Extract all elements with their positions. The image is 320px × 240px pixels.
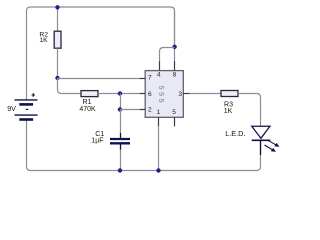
battery minus symbol: [26, 108, 28, 110]
svg-text:1K: 1K: [224, 108, 233, 115]
svg-text:R1: R1: [83, 99, 92, 106]
wire left bus to battery top: [26, 10, 28, 100]
LED light arrow 2: [265, 145, 276, 152]
svg-text:4: 4: [157, 71, 161, 78]
capacitor C1: [110, 133, 130, 150]
svg-text:470K: 470K: [79, 106, 96, 113]
LED light arrow 1: [267, 140, 279, 147]
battery plus symbol: [32, 93, 36, 97]
wire top bus from left corner to pin8 corner: [27, 7, 175, 44]
node junction pin1 / ground bus: [156, 168, 160, 172]
label 555 rotated: [157, 86, 166, 106]
wire pin 7 row: [58, 78, 140, 80]
battery B1 9V: [15, 100, 38, 120]
resistor R2: [54, 31, 61, 48]
label R2 1K: [39, 31, 48, 44]
label L.E.D.: [225, 129, 245, 138]
pin 3 stub: [183, 93, 190, 95]
svg-text:9V: 9V: [7, 104, 16, 113]
pin label 4: [157, 71, 161, 78]
wire R2 bottom lead: [57, 48, 59, 78]
wire R2 top lead: [57, 7, 59, 31]
pin 7 stub: [140, 78, 146, 80]
svg-text:8: 8: [173, 71, 177, 78]
svg-text:6: 6: [148, 91, 152, 98]
svg-text:2: 2: [148, 107, 152, 114]
wire R2 node down to R1: [58, 78, 82, 94]
wire C1 bottom lead: [120, 150, 122, 171]
pin 4 stub: [159, 61, 161, 70]
pin 8 stub: [174, 61, 176, 70]
node junction pin4 / pin8: [172, 45, 176, 49]
pin 5 stub: [174, 117, 176, 126]
node junction R2 / pin7 / R1: [55, 76, 59, 80]
svg-text:1K: 1K: [39, 37, 48, 44]
wire pin 2 row: [120, 109, 140, 111]
wire node to node vertical: [120, 94, 122, 110]
pin 6 stub: [140, 93, 146, 95]
pin label 7: [148, 75, 152, 82]
svg-text:555: 555: [157, 86, 166, 106]
svg-text:1: 1: [157, 109, 161, 116]
wire pin 3 to R3: [190, 93, 222, 95]
node junction R1 / pin6 / C1: [118, 91, 122, 95]
node junction C1 / ground bus: [118, 168, 122, 172]
wire pin8 vertical from top bus: [174, 11, 176, 62]
node junction top bus / R2: [55, 5, 59, 9]
wire bottom ground bus: [120, 142, 261, 171]
wire branch to pin 4: [160, 48, 175, 62]
wire C1 top lead: [120, 110, 122, 134]
label R1 470K: [79, 99, 96, 113]
wire battery bottom to bottom-left corner: [27, 121, 121, 171]
battery label 9V: [7, 104, 16, 113]
node junction pin2 / C1: [118, 107, 122, 111]
label R3 1K: [224, 102, 233, 116]
svg-text:1µF: 1µF: [91, 137, 103, 144]
svg-text:7: 7: [148, 75, 152, 82]
wire R3 to LED corner: [238, 94, 261, 127]
pin 2 stub: [140, 109, 146, 111]
svg-text:L.E.D.: L.E.D.: [225, 129, 245, 138]
pin label 1: [157, 109, 161, 116]
resistor R3: [221, 91, 238, 97]
pin label 8: [173, 71, 177, 78]
op-amp U1 555 timer body: [145, 71, 183, 118]
pin label 5: [172, 109, 176, 116]
svg-text:3: 3: [178, 91, 182, 98]
wire pin 1 to ground bus: [158, 126, 160, 170]
LED D1: [252, 126, 271, 155]
pin label 6: [148, 91, 152, 98]
resistor R1: [81, 91, 98, 97]
pin label 3: [178, 91, 182, 98]
label C1 1uF: [91, 131, 104, 144]
wire R1 right lead to pin 6: [98, 93, 140, 95]
svg-text:5: 5: [172, 109, 176, 116]
pin label 2: [148, 107, 152, 114]
pin 1 stub: [158, 117, 160, 126]
